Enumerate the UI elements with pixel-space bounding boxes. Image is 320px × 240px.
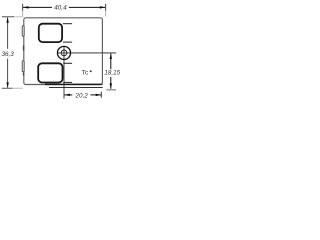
- svg-text:36,3: 36,3: [1, 51, 14, 58]
- svg-text:Tc: Tc: [82, 69, 89, 76]
- svg-text:18,15: 18,15: [104, 70, 120, 77]
- svg-text:20,2: 20,2: [74, 93, 88, 100]
- svg-text:40,4: 40,4: [54, 5, 67, 12]
